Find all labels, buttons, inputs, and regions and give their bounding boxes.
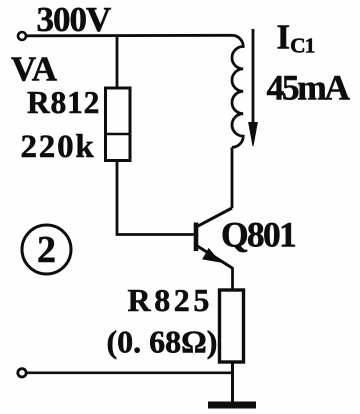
emitter diagonal [197,246,234,269]
svg-text:R825: R825 [128,282,214,318]
svg-text:VA: VA [11,50,58,89]
wire (R812 bottom lead down and right to base) [117,161,194,235]
callout circle number 2 [22,225,71,274]
collector diagonal [197,208,233,227]
svg-text:45mA: 45mA [267,68,351,108]
ground [208,402,256,409]
resistor R825 [220,290,244,362]
wire (R825 bottom lead to ground) [231,362,234,403]
base bar [194,223,199,252]
terminal (top input, VA) [18,32,26,40]
current arrow IC1 [249,29,258,146]
transistor Q801 [196,208,233,269]
wire (emitter lead down to R825) [231,268,234,290]
wire (collector lead from inductor) [231,147,234,208]
wire (bottom rail) [27,371,233,374]
wire (top rail from terminal to inductor) [27,34,233,37]
svg-text:220k: 220k [21,129,96,165]
wire (R812 top lead) [116,36,119,89]
svg-text:300V: 300V [37,0,112,39]
svg-text:2: 2 [37,229,56,271]
svg-text:Q801: Q801 [221,215,295,255]
resistor R812 [106,88,131,161]
svg-text:R812: R812 [27,85,100,120]
svg-text:IC1: IC1 [277,18,315,58]
emitter arrowhead [203,249,219,261]
svg-text:(0. 68Ω): (0. 68Ω) [107,324,218,360]
inductor L1 (output transformer primary winding) [232,35,243,147]
terminal (bottom input) [18,369,26,377]
